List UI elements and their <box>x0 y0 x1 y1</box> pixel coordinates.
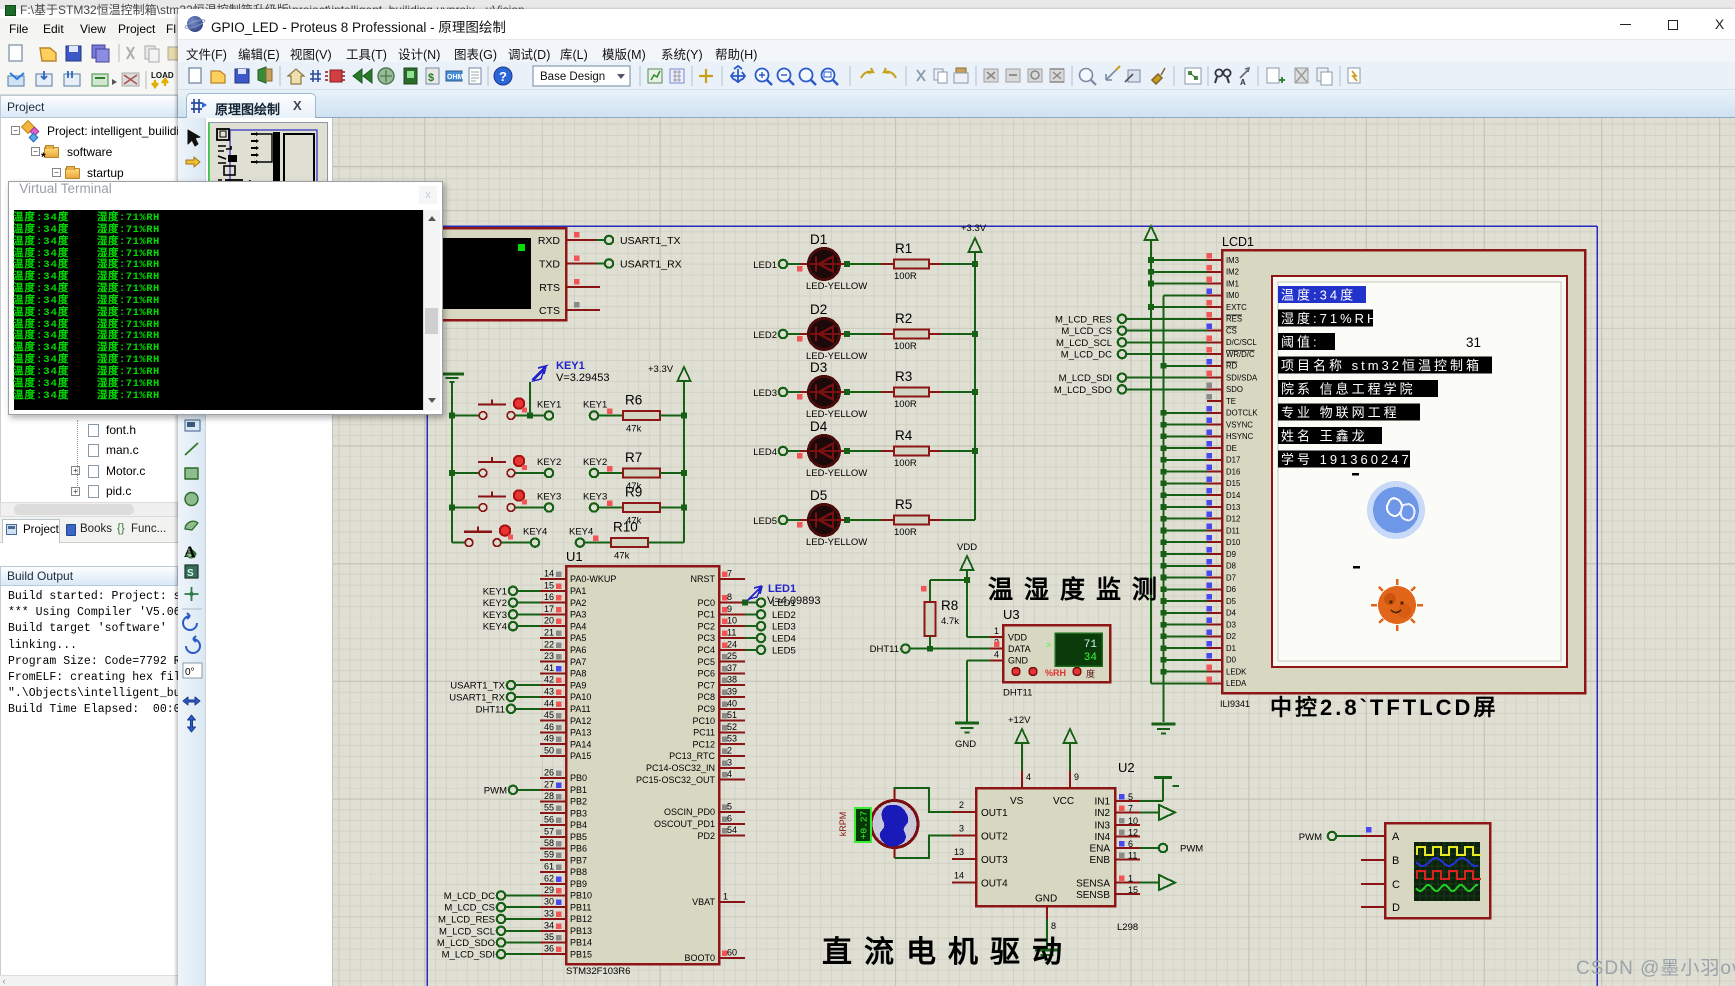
svg-text:SENSA: SENSA <box>1076 879 1110 890</box>
svg-text:D4: D4 <box>1226 609 1237 618</box>
svg-text:100R: 100R <box>894 399 917 410</box>
svg-text:D14: D14 <box>1226 491 1241 500</box>
LCD1 pin IM0 <box>1207 288 1240 300</box>
terminal KEY2 left <box>515 457 561 477</box>
svg-text:PA9: PA9 <box>570 680 586 690</box>
U1 pin PC9 (40) <box>697 698 745 714</box>
svg-text:D4: D4 <box>810 419 828 434</box>
svg-text:PC8: PC8 <box>697 692 715 702</box>
wire VDD to R8 <box>921 580 967 602</box>
svg-text:36: 36 <box>544 944 554 954</box>
svg-text:PC6: PC6 <box>697 669 715 679</box>
svg-text:29: 29 <box>544 885 554 895</box>
wire ground bus to LCD1 D17 <box>1161 457 1207 463</box>
U1 pin PA7 (23) <box>540 651 586 667</box>
wire R1 to +3.3V rail <box>929 261 978 267</box>
svg-text:PB7: PB7 <box>570 855 587 865</box>
push button KEY2 <box>452 456 527 477</box>
LCD1 pin D13 <box>1207 500 1241 512</box>
U1 pin PB5 (57) <box>540 826 587 842</box>
terminal M_LCD_SDI <box>1059 373 1127 384</box>
svg-text:ENB: ENB <box>1089 855 1110 866</box>
U1 pin PB10 (29) <box>540 885 592 901</box>
terminal DHT11 at U1 <box>476 704 540 715</box>
wire R4 to +3.3V rail <box>929 448 978 454</box>
MCU U1 STM32F103R6 <box>566 549 719 977</box>
U1 pin PB14 (35) <box>540 932 592 948</box>
svg-text:52: 52 <box>727 722 737 732</box>
svg-text:20: 20 <box>544 616 554 626</box>
svg-text:15: 15 <box>1128 885 1138 895</box>
ground LCD <box>1152 724 1176 734</box>
U1 pin PA2 (16) <box>540 592 586 608</box>
svg-text:56: 56 <box>544 815 554 825</box>
svg-text:PWM: PWM <box>1299 832 1322 843</box>
svg-text:EXTC: EXTC <box>1226 303 1247 312</box>
svg-text:KEY1: KEY1 <box>537 400 561 411</box>
svg-text:PC3: PC3 <box>697 633 715 643</box>
svg-text:OUT1: OUT1 <box>981 808 1008 819</box>
U1 pin PC6 (37) <box>697 663 745 679</box>
svg-text:13: 13 <box>954 847 964 857</box>
svg-text:D1: D1 <box>810 232 827 247</box>
svg-text:30: 30 <box>544 897 554 907</box>
svg-text:D13: D13 <box>1226 503 1240 512</box>
svg-text:PA6: PA6 <box>570 645 586 655</box>
svg-text:4: 4 <box>1026 772 1031 782</box>
U1 pin PA5 (21) <box>540 628 586 644</box>
U2 pin IN3 (10) <box>1115 816 1140 826</box>
power +12V VCC <box>1064 729 1077 771</box>
svg-text:LED-YELLOW: LED-YELLOW <box>806 537 867 548</box>
terminal KEY1 left <box>515 400 561 420</box>
svg-text:11: 11 <box>727 628 736 638</box>
svg-text:学号 191360247: 学号 191360247 <box>1281 452 1412 467</box>
VT1 pin RTS <box>566 279 600 287</box>
terminal M_LCD_DC <box>1061 350 1126 361</box>
svg-text:33: 33 <box>544 909 554 919</box>
svg-text:1: 1 <box>994 626 999 636</box>
terminal PWM at scope <box>1299 827 1372 843</box>
wire ground bus to LCD1 D13 <box>1161 504 1207 510</box>
svg-text:KEY1: KEY1 <box>483 586 507 597</box>
LCD1 pin VSYNC <box>1207 418 1254 430</box>
svg-text:M_LCD_SCL: M_LCD_SCL <box>1056 338 1112 349</box>
wire ground bus to LCD1 RD <box>1161 363 1207 369</box>
LCD1 pin EXTC <box>1207 300 1248 312</box>
LCD1 pin D4 <box>1207 606 1237 618</box>
U1 pin PB12 (33) <box>540 909 592 925</box>
svg-text:STM32F103R6: STM32F103R6 <box>566 966 630 977</box>
svg-text:OUT4: OUT4 <box>981 879 1008 890</box>
svg-text:LED5: LED5 <box>753 516 777 527</box>
resistor R7 47k <box>623 450 660 492</box>
svg-text:100R: 100R <box>894 527 917 538</box>
svg-text:PC14-OSC32_IN: PC14-OSC32_IN <box>646 763 715 773</box>
svg-text:R4: R4 <box>895 428 913 443</box>
LCD1 pin D3 <box>1207 618 1236 630</box>
svg-text:度: 度 <box>1086 668 1095 679</box>
svg-text:23: 23 <box>544 651 554 661</box>
svg-text:DATA: DATA <box>1008 644 1031 654</box>
svg-text:R5: R5 <box>895 497 912 512</box>
svg-text:PC10: PC10 <box>692 716 715 726</box>
LCD1 pin IM1 <box>1207 277 1240 289</box>
svg-text:CS: CS <box>1226 326 1237 335</box>
svg-text:PA0-WKUP: PA0-WKUP <box>570 574 616 584</box>
svg-text:100R: 100R <box>894 341 917 352</box>
wire keys +3.3V rail <box>683 416 685 543</box>
U2 pin OUT1 (2) <box>952 800 976 812</box>
overview pane mini schematic <box>209 123 328 233</box>
LCD1 pin IM2 <box>1207 265 1240 277</box>
svg-text:KEY3: KEY3 <box>537 492 561 503</box>
resistor R1 100R <box>894 241 929 282</box>
svg-text:U2: U2 <box>1118 760 1135 775</box>
svg-text:M_LCD_DC: M_LCD_DC <box>1061 350 1112 361</box>
svg-text:40: 40 <box>727 698 737 708</box>
svg-text:KEY2: KEY2 <box>483 598 507 609</box>
wire U1 PC0 to LED1 <box>745 602 757 604</box>
svg-text:D10: D10 <box>1226 538 1241 547</box>
wire ground bus to LCD1 VSYNC <box>1161 422 1207 428</box>
wire ground bus to LCD1 D2 <box>1161 634 1207 640</box>
LED D4 LED-YELLOW <box>806 419 867 479</box>
svg-text:D7: D7 <box>1226 573 1236 582</box>
power +3.3V LED rail <box>961 223 987 264</box>
wire M_LCD_SDI to LCD1 <box>1126 377 1207 379</box>
wire M_LCD_DC to LCD1 <box>1126 353 1207 355</box>
svg-text:PB15: PB15 <box>570 949 592 959</box>
U1 pin PA6 (22) <box>540 639 586 655</box>
U3 pin VDD (1) <box>967 626 1003 637</box>
wire ground bus to LCD1 D7 <box>1161 575 1207 581</box>
wire ground bus to LCD1 D0 <box>1161 657 1207 663</box>
svg-text:38: 38 <box>727 675 737 685</box>
terminal LED3 at U1 <box>757 622 796 633</box>
LED D5 LED-YELLOW <box>806 488 867 548</box>
svg-text:17: 17 <box>544 604 554 614</box>
svg-text:26: 26 <box>544 768 554 778</box>
svg-text:直流电机驱动: 直流电机驱动 <box>822 936 1074 969</box>
U1 pin PB7 (59) <box>540 850 587 866</box>
svg-text:PB13: PB13 <box>570 926 592 936</box>
svg-text:PB8: PB8 <box>570 867 587 877</box>
power +12V VS <box>1008 715 1031 771</box>
svg-text:PB14: PB14 <box>570 938 592 948</box>
wire ground bus to LCD1 DE <box>1161 445 1207 451</box>
resistor R4 100R <box>894 428 929 469</box>
svg-text:PB1: PB1 <box>570 785 587 795</box>
terminal M_LCD_RES <box>1055 314 1126 325</box>
svg-text:M_LCD_RES: M_LCD_RES <box>438 915 495 926</box>
svg-text:34: 34 <box>544 920 554 930</box>
svg-text:PB11: PB11 <box>570 902 591 912</box>
svg-text:KEY4: KEY4 <box>483 622 507 633</box>
svg-text:NRST: NRST <box>691 574 716 584</box>
U1 pin PC13_RTC (2) <box>669 746 745 762</box>
scope pin D <box>1361 906 1385 908</box>
resistor R6 47k <box>623 393 660 435</box>
uVision toolbar row1 <box>9 44 179 62</box>
wire LED rail vertical <box>974 264 976 520</box>
LCD1 pin SDO <box>1207 382 1243 394</box>
svg-text:PC2: PC2 <box>697 621 715 631</box>
power VDD U3 <box>957 542 977 637</box>
svg-text:49: 49 <box>544 734 554 744</box>
svg-text:10: 10 <box>1128 816 1138 826</box>
svg-text:46: 46 <box>544 722 554 732</box>
svg-text:SDO: SDO <box>1226 385 1243 394</box>
U1 pin PC10 (51) <box>692 710 745 726</box>
U1 pin PC12 (53) <box>692 734 745 750</box>
LCD1 pin D17 <box>1207 453 1241 465</box>
svg-text:PC0: PC0 <box>697 598 715 608</box>
probe arrow at SENSA <box>1140 875 1175 890</box>
terminal LED1 <box>753 260 787 271</box>
terminal M_LCD_DC at U1 <box>444 891 540 902</box>
scope pin B <box>1361 859 1385 861</box>
U1 pin PA0-WKUP (14) <box>540 569 616 585</box>
wire U1 PC2 to LED3 <box>745 625 757 627</box>
U1 pin PB1 (27) <box>540 779 587 795</box>
svg-text:D15: D15 <box>1226 479 1241 488</box>
svg-text:D5: D5 <box>1226 597 1237 606</box>
svg-text:中控2.8`TFTLCD屏: 中控2.8`TFTLCD屏 <box>1270 695 1498 720</box>
svg-text:8: 8 <box>1051 921 1056 931</box>
svg-text:LED3: LED3 <box>772 622 796 633</box>
svg-text:湿度:71%RH: 湿度:71%RH <box>1281 311 1379 326</box>
wire ground bus to LCD1 D3 <box>1161 622 1207 628</box>
wire key ground bus <box>449 392 455 543</box>
wire ground bus to LCD1 LEDK <box>1161 669 1207 675</box>
terminal M_LCD_RES at U1 <box>438 915 540 926</box>
svg-text:PA14: PA14 <box>570 739 591 749</box>
LCD humidity icon <box>1367 481 1425 539</box>
terminal KEY3 left <box>515 492 561 512</box>
svg-text:D12: D12 <box>1226 515 1240 524</box>
U1 pin PA12 (45) <box>540 710 591 726</box>
svg-text:阈值:: 阈值: <box>1281 335 1320 350</box>
svg-text:LED-YELLOW: LED-YELLOW <box>806 468 867 479</box>
svg-text:项目名称 stm32恒温控制箱: 项目名称 stm32恒温控制箱 <box>1281 358 1482 373</box>
svg-text:温湿度监测: 温湿度监测 <box>988 575 1168 604</box>
voltage probe KEY1 <box>527 360 610 419</box>
wire R8 to DATA <box>910 636 990 651</box>
svg-text:VDD: VDD <box>957 542 977 553</box>
wire ground bus to LCD1 D9 <box>1161 551 1207 557</box>
wire +3.3V to LCD1 EXTC <box>1148 304 1207 310</box>
U3 pin DATA (2) <box>990 638 1003 649</box>
svg-text:OUT2: OUT2 <box>981 832 1008 843</box>
U1 pin PA14 (49) <box>540 734 591 750</box>
wire +3.3V to LCD1 LEDA <box>1151 682 1207 684</box>
VT1 pin TXD wire to USART1_RX <box>566 256 605 264</box>
svg-text:M_LCD_DC: M_LCD_DC <box>444 891 495 902</box>
svg-text:42: 42 <box>544 675 554 685</box>
svg-text:58: 58 <box>544 838 554 848</box>
U1 pin PB13 (34) <box>540 920 592 936</box>
U1 pin PA4 (20) <box>540 616 586 632</box>
power +3.3V keys <box>648 364 691 416</box>
svg-text:院系 信息工程学院: 院系 信息工程学院 <box>1281 382 1416 397</box>
wire +3.3V to LCD1 IM3 <box>1148 257 1207 263</box>
wire ground bus to LCD1 D5 <box>1161 598 1207 604</box>
svg-text:57: 57 <box>544 826 554 836</box>
LED D3 LED-YELLOW <box>806 360 867 420</box>
svg-text:IN2: IN2 <box>1094 808 1110 819</box>
svg-text:U3: U3 <box>1003 607 1020 622</box>
svg-text:V=4.09893: V=4.09893 <box>767 595 821 607</box>
wire R9 to +3.3V <box>660 505 687 511</box>
svg-text:专业 物联网工程: 专业 物联网工程 <box>1281 405 1400 420</box>
svg-text:IM2: IM2 <box>1226 268 1239 277</box>
U2 pin OUT4 (14) <box>952 871 976 883</box>
U2 pin ENB (11) <box>1115 850 1140 860</box>
svg-text:D16: D16 <box>1226 468 1240 477</box>
terminal LED2 <box>753 330 787 341</box>
svg-text:55: 55 <box>544 803 554 813</box>
U2 pin IN1 (5) <box>1115 792 1140 802</box>
wire D4 to R4 <box>839 448 894 454</box>
terminal LED3 <box>753 388 787 399</box>
terminal M_LCD_CS <box>1061 326 1126 337</box>
terminal KEY1 at U1 <box>483 586 540 597</box>
svg-text:53: 53 <box>727 734 737 744</box>
svg-text:R1: R1 <box>895 241 912 256</box>
U2 pin GND (8) <box>1047 906 1056 949</box>
svg-text:PB6: PB6 <box>570 844 587 854</box>
svg-text:%RH: %RH <box>1045 668 1066 678</box>
U1 pin PB2 (28) <box>540 791 587 807</box>
terminal PWM at U1 <box>484 785 540 796</box>
LCD1 pin D15 <box>1207 476 1241 488</box>
svg-text:kRPM: kRPM <box>838 812 848 837</box>
LCD1 pin D5 <box>1207 594 1237 606</box>
svg-text:D/C/SCL: D/C/SCL <box>1226 338 1257 347</box>
svg-text:OSCOUT_PD1: OSCOUT_PD1 <box>654 819 715 829</box>
svg-text:PC13_RTC: PC13_RTC <box>669 751 715 761</box>
svg-text:M_LCD_SDI: M_LCD_SDI <box>1059 373 1112 384</box>
LCD1 pin D7 <box>1207 571 1236 583</box>
svg-text:15: 15 <box>544 580 554 590</box>
svg-text:10: 10 <box>727 616 737 626</box>
svg-text:R6: R6 <box>625 393 642 408</box>
terminal LED5 at U1 <box>757 645 796 656</box>
svg-text:D: D <box>1392 902 1400 914</box>
wire M_LCD_SCL to LCD1 <box>1126 341 1207 343</box>
svg-text:PB12: PB12 <box>570 914 592 924</box>
svg-text:R10: R10 <box>613 520 638 535</box>
svg-text:3: 3 <box>727 757 732 767</box>
svg-text:R7: R7 <box>625 450 642 465</box>
svg-text:R2: R2 <box>895 311 912 326</box>
svg-text:24: 24 <box>727 639 737 649</box>
svg-text:39: 39 <box>727 687 737 697</box>
svg-text:D3: D3 <box>810 360 827 375</box>
label 直流电机驱动 <box>822 936 1074 969</box>
svg-text:6: 6 <box>1128 839 1133 849</box>
svg-text:R3: R3 <box>895 369 912 384</box>
motor M1 <box>871 789 918 858</box>
LCD1 pin D11 <box>1207 524 1240 536</box>
wire ground bus to LCD1 D11 <box>1161 528 1207 534</box>
svg-text:9: 9 <box>1074 772 1079 782</box>
svg-text:LCD1: LCD1 <box>1222 235 1254 249</box>
svg-text:SENSB: SENSB <box>1076 890 1110 901</box>
watermark <box>1576 953 1735 979</box>
terminal USART1_RX <box>605 259 682 271</box>
terminal KEY3 at U1 <box>483 610 540 621</box>
svg-text:PD2: PD2 <box>697 831 715 841</box>
terminal LED4 <box>753 447 787 458</box>
svg-text:VBAT: VBAT <box>692 897 715 907</box>
U1 pin PC1 (9) <box>697 604 745 620</box>
wire D5 to R5 <box>839 517 894 523</box>
svg-text:B: B <box>1392 855 1399 867</box>
U1 pin PA13 (46) <box>540 722 591 738</box>
svg-text:IN4: IN4 <box>1094 832 1110 843</box>
svg-text:PC11: PC11 <box>693 728 715 738</box>
U1 pin PB3 (55) <box>540 803 587 819</box>
svg-text:IM3: IM3 <box>1226 256 1239 265</box>
svg-text:PWM: PWM <box>484 785 507 796</box>
svg-text:60: 60 <box>727 948 737 958</box>
wire R10 to +3.3V <box>648 542 684 544</box>
resistor R3 100R <box>894 369 929 410</box>
U2 pin IN2 (7) <box>1115 803 1140 813</box>
scope pin C <box>1361 883 1385 885</box>
svg-text:3: 3 <box>959 824 964 834</box>
driver U2 L298 <box>976 760 1138 933</box>
voltage probe LED1 <box>742 583 821 607</box>
svg-text:100R: 100R <box>894 458 917 469</box>
svg-text:L298: L298 <box>1117 922 1138 933</box>
wire motor to OUT2 <box>895 836 953 859</box>
svg-text:LED4: LED4 <box>772 634 796 645</box>
svg-text:1: 1 <box>723 892 728 902</box>
proteus left toolbar icons <box>182 130 202 732</box>
U1 pin PB0 (26) <box>540 768 587 784</box>
svg-text:M_LCD_SDO: M_LCD_SDO <box>1054 385 1112 396</box>
svg-text:TXD: TXD <box>539 259 560 271</box>
svg-text:PA7: PA7 <box>570 657 586 667</box>
svg-text:PC9: PC9 <box>697 704 715 714</box>
svg-text:WR/D/C: WR/D/C <box>1226 350 1255 359</box>
wire ground bus to LCD1 D1 <box>1161 645 1207 651</box>
svg-text:1: 1 <box>1128 874 1133 884</box>
svg-text:PA4: PA4 <box>570 621 586 631</box>
svg-text:14: 14 <box>544 569 554 579</box>
resistor R5 100R <box>894 497 929 538</box>
svg-text:M_LCD_SCL: M_LCD_SCL <box>439 926 495 937</box>
U1 pin PB4 (56) <box>540 815 587 831</box>
svg-text:PWM: PWM <box>1180 844 1203 855</box>
terminal KEY4 left <box>501 527 547 547</box>
proteus main toolbar icons <box>189 66 512 86</box>
svg-text:PC7: PC7 <box>697 680 715 690</box>
wire +3.3V to LCD1 IM2 <box>1148 269 1207 275</box>
LCD1 pin TE <box>1207 394 1236 406</box>
terminal KEY3 right <box>583 492 613 512</box>
svg-text:VDD: VDD <box>1008 633 1028 643</box>
U1 pin PA15 (50) <box>540 746 591 762</box>
svg-text:4: 4 <box>727 769 732 779</box>
svg-text:31: 31 <box>1466 335 1481 350</box>
wire LED1 to D1 <box>788 264 808 272</box>
svg-text:DE: DE <box>1226 444 1237 453</box>
LCD1 pin D14 <box>1207 488 1241 500</box>
